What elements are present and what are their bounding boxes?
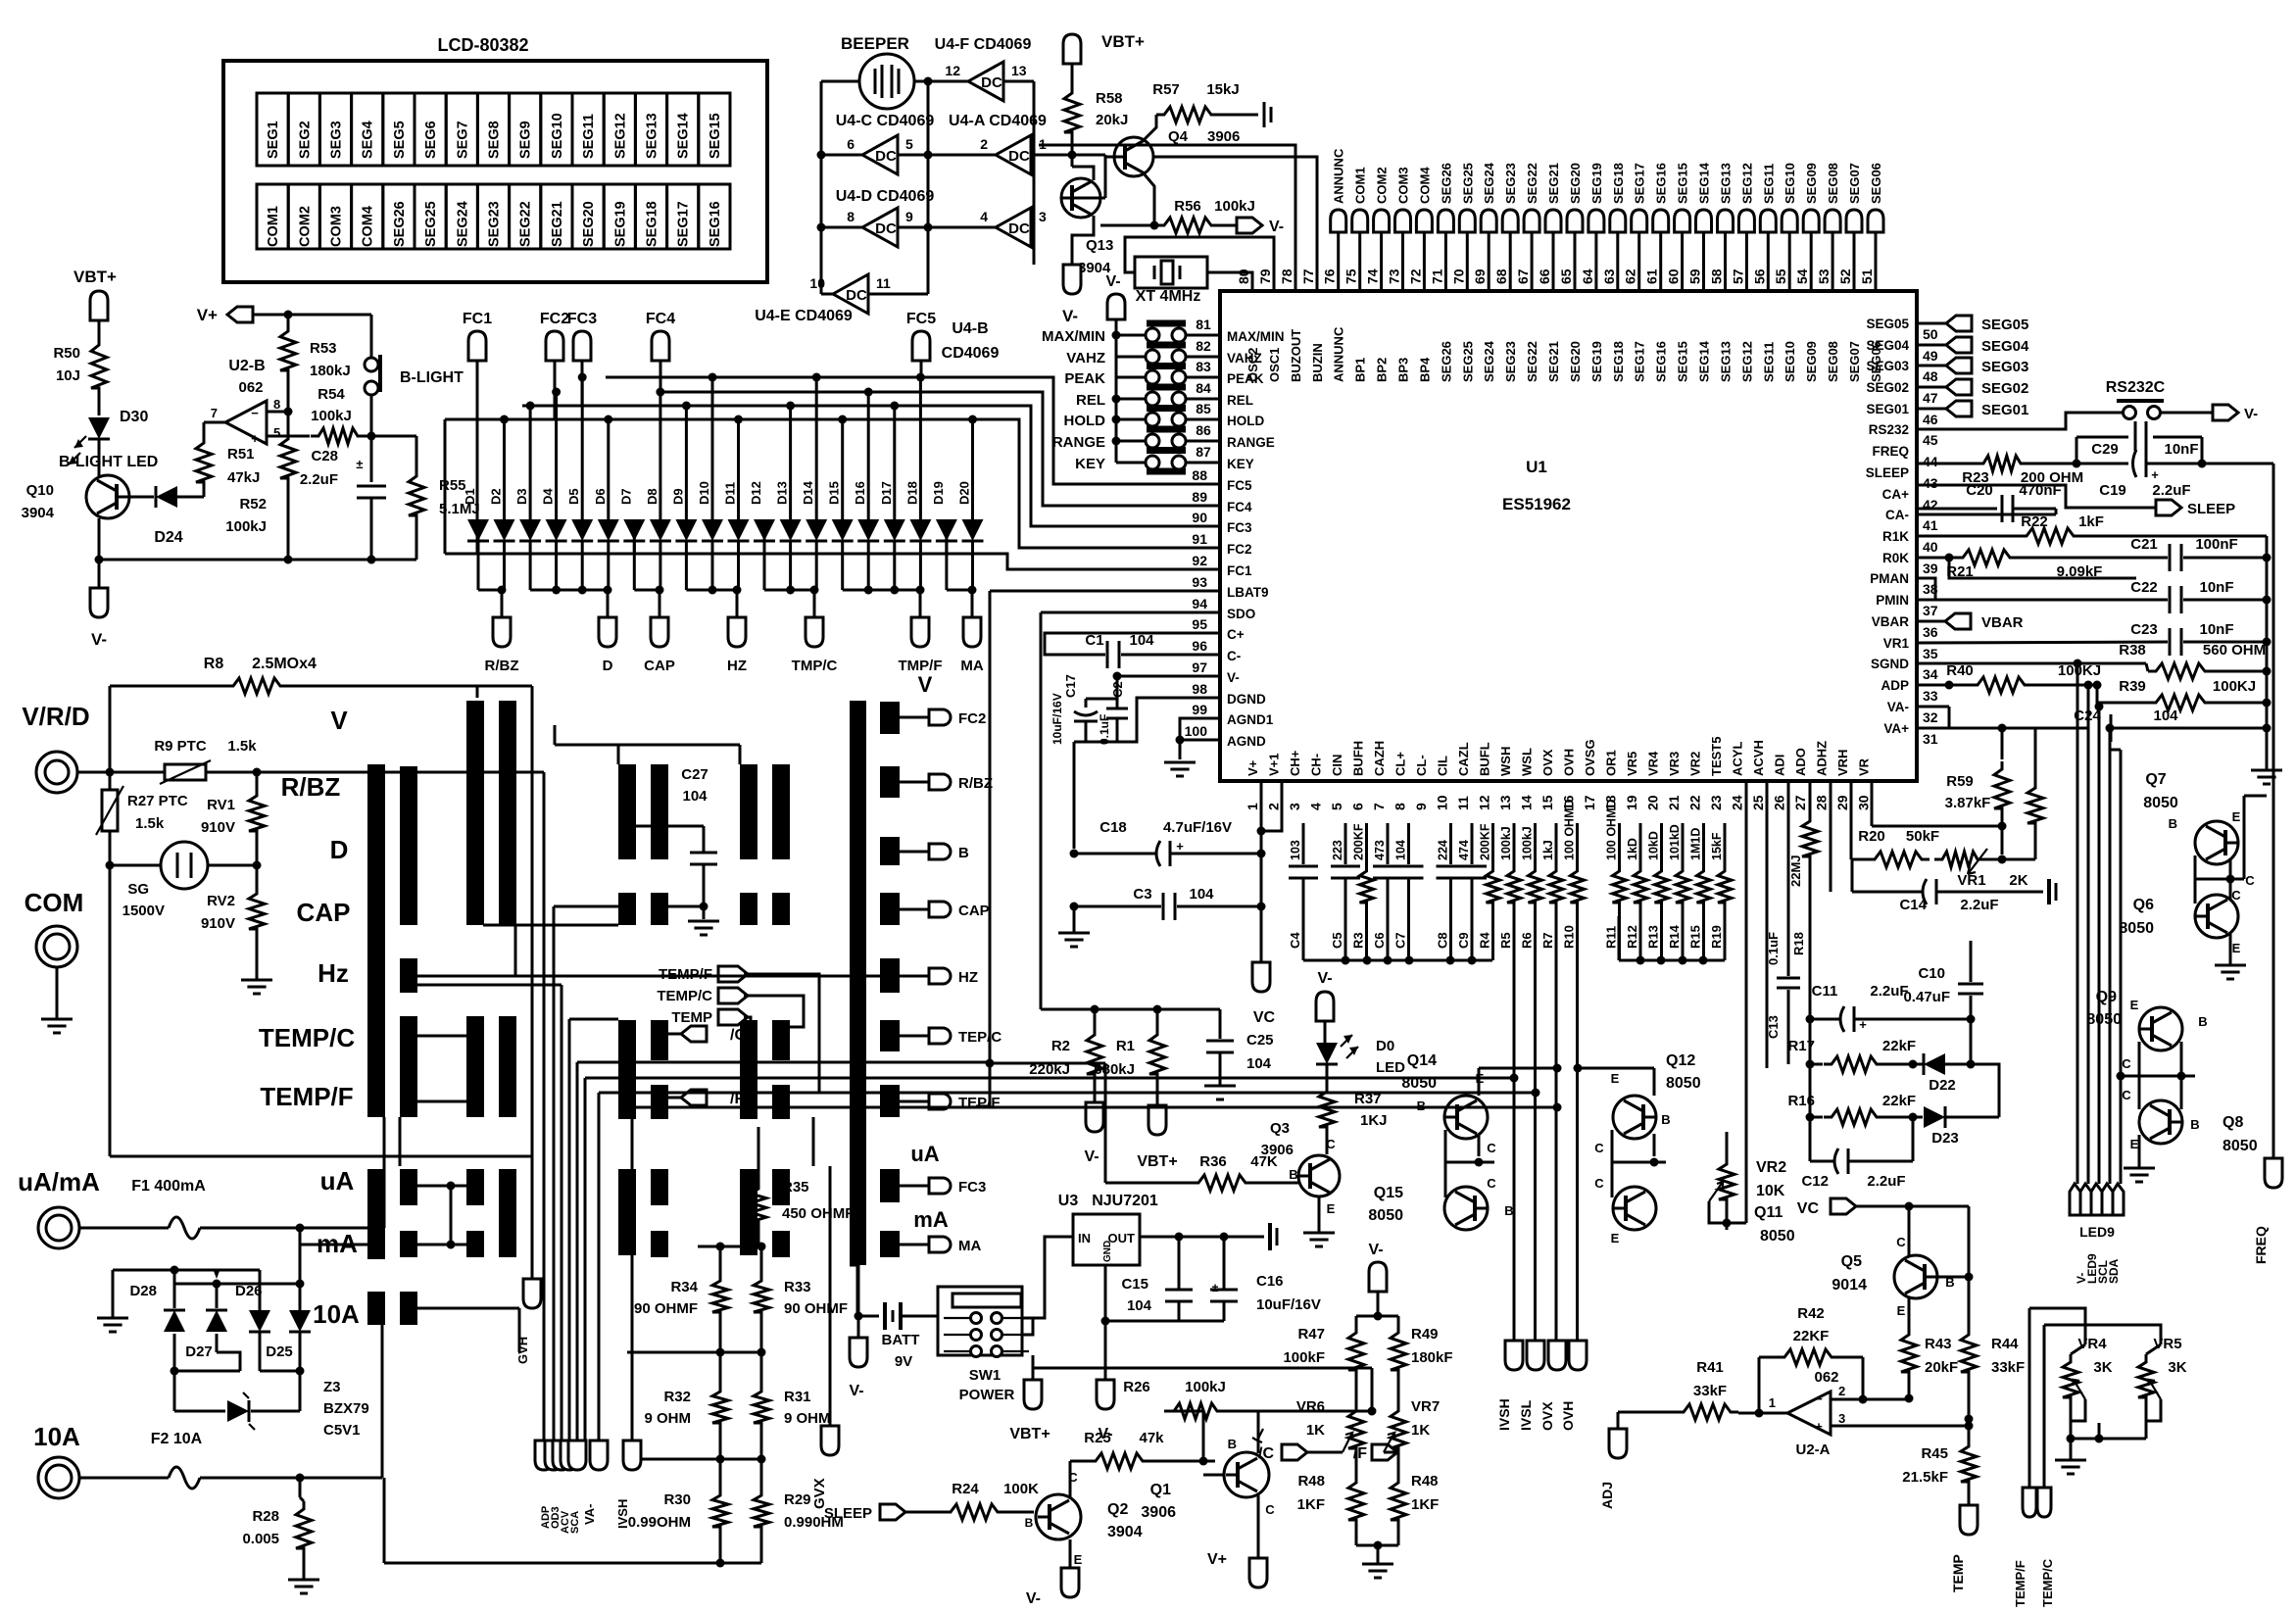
svg-text:B: B bbox=[2190, 1117, 2199, 1132]
svg-text:180kJ: 180kJ bbox=[310, 363, 351, 379]
svg-text:CL-: CL- bbox=[1414, 755, 1429, 776]
pin VA- bottom bbox=[590, 1441, 608, 1470]
svg-text:SG: SG bbox=[127, 881, 149, 898]
svg-text:C27: C27 bbox=[681, 766, 708, 783]
switch contact bar x631 y1193 bbox=[618, 1169, 636, 1255]
svg-text:ACYL: ACYL bbox=[1731, 742, 1745, 776]
svg-text:R22: R22 bbox=[2021, 513, 2048, 530]
svg-text:V-: V- bbox=[1368, 1242, 1383, 1258]
wire divider bottom join bbox=[1356, 1544, 1398, 1547]
ground under C18/C3 bbox=[1073, 906, 1076, 933]
svg-text:SEG17: SEG17 bbox=[1633, 163, 1647, 204]
wire V+ rail bbox=[253, 314, 371, 317]
wire BUZIN from Q4 bbox=[1153, 157, 1317, 291]
svg-text:SEG12: SEG12 bbox=[1739, 341, 1754, 382]
svg-text:C: C bbox=[2122, 1056, 2131, 1071]
svg-text:1.5k: 1.5k bbox=[227, 738, 257, 755]
pin SEG04 flag bbox=[1917, 344, 1946, 347]
svg-text:C6: C6 bbox=[1372, 932, 1387, 949]
pin SEG05 flag bbox=[1917, 322, 1946, 325]
svg-text:ADI: ADI bbox=[1773, 755, 1787, 776]
svg-text:R17: R17 bbox=[1787, 1038, 1815, 1054]
svg-text:10uF/16V: 10uF/16V bbox=[1256, 1296, 1321, 1313]
svg-text:F1 400mA: F1 400mA bbox=[131, 1178, 206, 1195]
svg-text:82: 82 bbox=[1196, 338, 1211, 354]
svg-text:SEG13: SEG13 bbox=[1719, 163, 1734, 204]
connector stub SEG24 bbox=[1481, 210, 1496, 232]
LCD pin cell SEG22 bbox=[510, 184, 541, 249]
wire C+ C- join bbox=[1044, 633, 1047, 655]
svg-text:V-: V- bbox=[849, 1383, 863, 1399]
resistor R58 20kJ bbox=[1064, 85, 1080, 140]
svg-text:U3: U3 bbox=[1058, 1193, 1079, 1209]
resistor R34 90 OHMF bbox=[719, 1246, 722, 1274]
switch contact bar x664 y780 bbox=[651, 764, 668, 859]
resistor R30 0.99OHM bbox=[712, 1488, 728, 1535]
transistor Q1 3906 bbox=[1224, 1452, 1269, 1497]
svg-text:R38: R38 bbox=[2119, 642, 2146, 659]
svg-text:SEG26: SEG26 bbox=[1439, 341, 1453, 382]
svg-text:R3: R3 bbox=[1351, 932, 1366, 949]
transistor Q7 8050 bbox=[2195, 821, 2238, 864]
svg-text:VR7: VR7 bbox=[1411, 1398, 1440, 1415]
svg-text:ES51962: ES51962 bbox=[1502, 495, 1571, 513]
svg-text:49: 49 bbox=[1923, 348, 1938, 364]
svg-text:20: 20 bbox=[1645, 795, 1661, 810]
svg-text:D8: D8 bbox=[645, 488, 659, 505]
svg-text:100kJ: 100kJ bbox=[225, 518, 267, 535]
transistor Q9 8050 bbox=[2139, 1007, 2182, 1050]
switch contact bar x664 y1041 bbox=[651, 1020, 668, 1060]
svg-text:100: 100 bbox=[1185, 723, 1208, 739]
connector stub SEG11 bbox=[1760, 210, 1776, 232]
switch output contact HZ bbox=[880, 958, 900, 993]
pin VBT+ under R1 bbox=[1148, 1105, 1166, 1135]
svg-text:C19: C19 bbox=[2099, 482, 2126, 499]
svg-text:D5: D5 bbox=[566, 488, 581, 505]
svg-text:FC5: FC5 bbox=[1227, 478, 1252, 493]
wire Q5 emitter to R43 bbox=[1908, 1298, 1911, 1328]
svg-text:57: 57 bbox=[1730, 269, 1745, 284]
svg-text:SEG21: SEG21 bbox=[1546, 341, 1561, 382]
svg-text:Q8: Q8 bbox=[2223, 1114, 2243, 1131]
svg-text:V-: V- bbox=[1317, 970, 1332, 987]
resistor R40 100KJ bbox=[1917, 684, 1970, 687]
diode D2 bbox=[503, 419, 506, 520]
svg-text:SEG03: SEG03 bbox=[1866, 359, 1909, 373]
svg-text:560 OHM: 560 OHM bbox=[2203, 642, 2266, 659]
surge arrester SG 1500V bbox=[110, 864, 161, 867]
svg-text:26: 26 bbox=[1772, 795, 1787, 810]
svg-text:63: 63 bbox=[1601, 269, 1617, 284]
svg-text:R47: R47 bbox=[1297, 1326, 1325, 1343]
connector stub SEG23 bbox=[1502, 210, 1518, 232]
LCD pin cell SEG19 bbox=[604, 184, 635, 249]
svg-text:TMP/F: TMP/F bbox=[899, 658, 943, 674]
svg-text:104: 104 bbox=[1127, 1297, 1152, 1314]
resistor VR1 body vertical bbox=[2027, 780, 2043, 831]
svg-text:1kF: 1kF bbox=[2078, 513, 2104, 530]
svg-text:REL: REL bbox=[1227, 393, 1253, 408]
svg-text:D28: D28 bbox=[129, 1283, 157, 1299]
svg-text:8: 8 bbox=[1392, 803, 1408, 810]
svg-text:80: 80 bbox=[1236, 269, 1251, 284]
switch output contact B bbox=[880, 837, 900, 865]
button caps bars bbox=[1147, 320, 1186, 327]
svg-text:474: 474 bbox=[1457, 840, 1471, 860]
svg-text:C: C bbox=[1594, 1141, 1604, 1155]
wire Q4 collector to R57 bbox=[1144, 115, 1156, 140]
diode D11 bbox=[737, 419, 740, 520]
diode group rail to CAP bbox=[634, 589, 660, 592]
switch output contact FC2 bbox=[880, 702, 900, 734]
crystal XT 4MHz bbox=[1135, 257, 1207, 288]
svg-text:58: 58 bbox=[1709, 269, 1725, 284]
wire R51 to op-amp bbox=[203, 422, 206, 435]
svg-text:52: 52 bbox=[1837, 269, 1853, 284]
svg-text:D1: D1 bbox=[463, 488, 477, 505]
svg-text:D17: D17 bbox=[879, 481, 894, 505]
wire OSC2 to crystal bbox=[1207, 272, 1252, 291]
resistor R6 100kJ bbox=[1534, 823, 1537, 864]
svg-text:34: 34 bbox=[1923, 666, 1938, 682]
ground COM bbox=[56, 967, 59, 1019]
connector stub COM3 bbox=[1395, 210, 1411, 232]
connector stub SEG06 bbox=[1868, 210, 1883, 232]
svg-text:COM3: COM3 bbox=[329, 206, 345, 247]
svg-text:SEG20: SEG20 bbox=[1568, 341, 1583, 382]
svg-text:PMIN: PMIN bbox=[1876, 593, 1909, 608]
bus wire FC5 net bbox=[920, 361, 923, 377]
svg-text:VA-: VA- bbox=[582, 1504, 597, 1525]
svg-text:/C: /C bbox=[1258, 1445, 1274, 1462]
wire Q4 emitter to R56 row bbox=[1144, 173, 1154, 225]
svg-text:B-LIGHT LED: B-LIGHT LED bbox=[59, 454, 158, 470]
connector stub SEG09 bbox=[1803, 210, 1819, 232]
svg-text:MA: MA bbox=[958, 1238, 981, 1254]
diode group rail to D bbox=[530, 589, 609, 592]
svg-text:FC5: FC5 bbox=[906, 311, 936, 327]
svg-text:D20: D20 bbox=[957, 481, 972, 505]
switch contact bar x664 y1193 bbox=[651, 1169, 668, 1205]
svg-text:83: 83 bbox=[1196, 359, 1211, 374]
wire CAP rows bbox=[483, 924, 618, 927]
svg-text:9 OHM: 9 OHM bbox=[784, 1410, 831, 1427]
svg-text:69: 69 bbox=[1472, 269, 1488, 284]
svg-text:C: C bbox=[1487, 1176, 1496, 1191]
battery BATT 9V bbox=[850, 1264, 858, 1267]
svg-text:R40: R40 bbox=[1946, 662, 1974, 679]
svg-text:45: 45 bbox=[1923, 432, 1938, 448]
svg-text:C29: C29 bbox=[2091, 441, 2119, 458]
LCD pin cell SEG16 bbox=[699, 184, 730, 249]
svg-text:R14: R14 bbox=[1667, 924, 1682, 949]
svg-text:R32: R32 bbox=[663, 1389, 691, 1405]
svg-text:D7: D7 bbox=[618, 488, 633, 505]
pin IVSH bottom bbox=[623, 1441, 641, 1470]
svg-text:59: 59 bbox=[1687, 269, 1703, 284]
transistor Q10 3904 bbox=[86, 475, 129, 518]
svg-text:10nF: 10nF bbox=[2164, 441, 2198, 458]
svg-text:SEG06: SEG06 bbox=[1869, 163, 1883, 204]
wire VC top rail bbox=[1041, 1008, 1220, 1011]
pin SEG01 flag bbox=[1917, 408, 1946, 411]
potentiometer VR2 10K bbox=[1726, 1132, 1729, 1156]
svg-text:41: 41 bbox=[1923, 517, 1938, 533]
svg-text:54: 54 bbox=[1794, 269, 1810, 284]
wire long bar to battery bbox=[856, 1265, 859, 1316]
svg-text:SEG04: SEG04 bbox=[1981, 338, 2029, 355]
transistor Q2 3904 bbox=[1036, 1494, 1081, 1539]
svg-text:95: 95 bbox=[1192, 616, 1207, 632]
svg-text:LBAT9: LBAT9 bbox=[1227, 585, 1269, 600]
svg-text:SEG12: SEG12 bbox=[612, 113, 628, 159]
svg-text:R12: R12 bbox=[1625, 925, 1639, 949]
beeper BZ1 bbox=[821, 80, 859, 83]
resistor R3 200KF bbox=[1365, 823, 1368, 864]
svg-text:BEEPER: BEEPER bbox=[841, 34, 909, 53]
svg-text:22: 22 bbox=[1687, 795, 1703, 810]
svg-text:DC: DC bbox=[875, 148, 897, 165]
svg-text:R13: R13 bbox=[1646, 925, 1661, 949]
diode D23 bbox=[1913, 1116, 1923, 1119]
svg-text:33kF: 33kF bbox=[1991, 1359, 2025, 1376]
svg-text:D24: D24 bbox=[154, 529, 182, 546]
svg-text:VC: VC bbox=[1253, 1009, 1276, 1026]
svg-text:19: 19 bbox=[1624, 795, 1639, 810]
svg-text:MAX/MIN: MAX/MIN bbox=[1227, 329, 1285, 344]
svg-text:D27: D27 bbox=[185, 1343, 213, 1360]
svg-text:11: 11 bbox=[876, 275, 891, 291]
LCD pin cell SEG3 bbox=[319, 93, 351, 166]
transistor Q11 8050 bbox=[1613, 1187, 1656, 1230]
LCD pin cell SEG10 bbox=[541, 93, 572, 166]
svg-text:C4: C4 bbox=[1288, 932, 1302, 949]
svg-text:65: 65 bbox=[1558, 269, 1574, 284]
diode D12 bbox=[763, 520, 766, 554]
wire R47 R49 top join bbox=[1356, 1315, 1398, 1318]
op-amp U2-A 062 bbox=[1787, 1392, 1831, 1435]
svg-text:21.5kF: 21.5kF bbox=[1902, 1469, 1948, 1486]
switch SW1 POWER bbox=[938, 1287, 1022, 1355]
svg-text:R56: R56 bbox=[1174, 198, 1201, 215]
svg-text:U4-C CD4069: U4-C CD4069 bbox=[836, 113, 935, 129]
wire left rail of U4 block bbox=[820, 81, 823, 294]
svg-text:SEG09: SEG09 bbox=[1804, 341, 1819, 382]
svg-text:TEMP/C: TEMP/C bbox=[259, 1023, 355, 1052]
svg-text:B-LIGHT: B-LIGHT bbox=[400, 369, 464, 386]
wire R5-R10 columns down bbox=[1513, 910, 1516, 1341]
svg-text:V: V bbox=[330, 706, 348, 735]
svg-text:SEG11: SEG11 bbox=[1761, 164, 1776, 204]
svg-text:22kF: 22kF bbox=[1882, 1093, 1916, 1109]
svg-text:SDO: SDO bbox=[1227, 607, 1255, 621]
resistor R45 21.5kF bbox=[1968, 1419, 1971, 1439]
svg-text:200KF: 200KF bbox=[1479, 823, 1492, 860]
connector stub SEG13 bbox=[1718, 210, 1734, 232]
svg-text:LED9: LED9 bbox=[2079, 1224, 2115, 1240]
svg-text:HOLD: HOLD bbox=[1064, 413, 1106, 429]
switch contact bar x664 y911 bbox=[651, 893, 668, 925]
switch contact bar x476 y1037 bbox=[466, 1016, 484, 1117]
svg-text:39: 39 bbox=[1923, 561, 1938, 576]
capacitor C7 104 bbox=[1407, 823, 1410, 864]
svg-text:V-: V- bbox=[2244, 406, 2258, 422]
LCD pin cell SEG23 bbox=[477, 184, 509, 249]
resistor R10 100 OHMD bbox=[1576, 823, 1579, 864]
svg-text:Q1: Q1 bbox=[1150, 1482, 1171, 1498]
svg-text:48: 48 bbox=[1923, 368, 1938, 384]
svg-text:96: 96 bbox=[1192, 638, 1207, 654]
svg-text:VA+: VA+ bbox=[1883, 721, 1909, 736]
svg-text:OVSG: OVSG bbox=[1583, 739, 1597, 776]
svg-text:SEG23: SEG23 bbox=[1503, 341, 1518, 382]
wire op-amp output to R51 bbox=[204, 421, 225, 424]
svg-text:81: 81 bbox=[1196, 317, 1211, 332]
svg-text:OSC1: OSC1 bbox=[1267, 348, 1282, 382]
wire Q14 collector rail bbox=[1478, 1068, 1481, 1096]
svg-text:B: B bbox=[1661, 1112, 1670, 1127]
wire right of bars verticals bbox=[812, 1117, 815, 1166]
LCD pin cell SEG24 bbox=[446, 184, 477, 249]
svg-text:B: B bbox=[1504, 1203, 1513, 1218]
svg-text:10: 10 bbox=[1435, 795, 1450, 810]
wire F2 row to switch bbox=[381, 1325, 384, 1478]
svg-text:R15: R15 bbox=[1688, 925, 1703, 949]
svg-text:C: C bbox=[1265, 1502, 1275, 1517]
svg-text:104: 104 bbox=[1189, 886, 1214, 903]
svg-text:D12: D12 bbox=[749, 481, 763, 505]
pin D output bbox=[599, 617, 616, 647]
diode D28 bbox=[173, 1270, 176, 1308]
svg-text:36: 36 bbox=[1923, 624, 1938, 640]
svg-text:TEMP/C: TEMP/C bbox=[657, 988, 712, 1004]
svg-text:CA-: CA- bbox=[1885, 508, 1909, 522]
svg-text:C11: C11 bbox=[1812, 983, 1838, 1000]
wire VR4 VR5 bottom join bbox=[2071, 1438, 2146, 1441]
svg-text:R43: R43 bbox=[1925, 1336, 1952, 1352]
svg-text:8050: 8050 bbox=[2143, 795, 2178, 811]
cluster pins bottom bbox=[535, 1441, 553, 1470]
LCD pin cell SEG18 bbox=[635, 184, 666, 249]
svg-text:C5V1: C5V1 bbox=[323, 1422, 361, 1439]
svg-text:COM1: COM1 bbox=[266, 206, 281, 247]
svg-text:5: 5 bbox=[1329, 803, 1344, 810]
LCD pin cell COM3 bbox=[319, 184, 351, 249]
svg-text:V+: V+ bbox=[197, 306, 218, 324]
diode D18 bbox=[919, 377, 922, 520]
svg-text:SEG23: SEG23 bbox=[1503, 163, 1518, 204]
svg-text:42: 42 bbox=[1923, 497, 1938, 513]
wire pin1 V+ column to VC bbox=[1260, 781, 1263, 962]
svg-text:43: 43 bbox=[1923, 475, 1938, 491]
svg-text:COM4: COM4 bbox=[1417, 167, 1432, 204]
wire op-amp plus input to R54 bbox=[267, 435, 310, 438]
diode D8 bbox=[659, 392, 661, 520]
resistor R53 180kJ bbox=[287, 315, 290, 323]
svg-text:3904: 3904 bbox=[1107, 1524, 1143, 1540]
resistor R5 100kJ bbox=[1513, 823, 1516, 864]
svg-text:ANNUNC: ANNUNC bbox=[1332, 326, 1346, 382]
svg-text:TEMP/C: TEMP/C bbox=[2040, 1558, 2055, 1607]
svg-text:SEG17: SEG17 bbox=[676, 201, 692, 247]
svg-text:Q3: Q3 bbox=[1270, 1120, 1290, 1137]
resistor R1 680kJ bbox=[1156, 1009, 1159, 1027]
svg-text:3: 3 bbox=[1039, 209, 1047, 224]
svg-text:2.2uF: 2.2uF bbox=[2152, 482, 2190, 499]
svg-text:R54: R54 bbox=[318, 386, 345, 403]
svg-text:4.7uF/16V: 4.7uF/16V bbox=[1163, 819, 1232, 836]
svg-text:SLEEP: SLEEP bbox=[824, 1505, 872, 1522]
capacitor C15 104 bbox=[1178, 1237, 1181, 1290]
svg-text:2: 2 bbox=[1266, 803, 1282, 810]
svg-text:3904: 3904 bbox=[22, 505, 55, 521]
cap to ground right of C14 bbox=[2047, 879, 2051, 904]
ground C27 bbox=[688, 920, 719, 923]
svg-text:53: 53 bbox=[1816, 269, 1832, 284]
svg-text:FC2: FC2 bbox=[1227, 542, 1252, 557]
connector stub SEG10 bbox=[1782, 210, 1797, 232]
svg-text:V-: V- bbox=[1269, 219, 1284, 235]
svg-text:FC3: FC3 bbox=[1227, 520, 1252, 535]
svg-text:BP4: BP4 bbox=[1417, 357, 1432, 382]
wire backlight bottom rail bbox=[99, 559, 416, 562]
pin SEG03 flag bbox=[1917, 365, 1946, 367]
svg-text:CIL: CIL bbox=[1436, 756, 1450, 776]
svg-text:R48: R48 bbox=[1411, 1473, 1439, 1490]
svg-text:73: 73 bbox=[1387, 269, 1402, 284]
svg-text:67: 67 bbox=[1515, 269, 1531, 284]
svg-text:8050: 8050 bbox=[2223, 1138, 2258, 1154]
wire PMAN jog bbox=[1917, 578, 1935, 600]
svg-text:Q13: Q13 bbox=[1086, 237, 1113, 254]
inverter U4-B CD4069 bbox=[928, 226, 996, 229]
svg-text:64: 64 bbox=[1580, 269, 1595, 284]
wire FREQ right rail bbox=[2272, 464, 2275, 1158]
svg-text:97: 97 bbox=[1192, 659, 1207, 675]
svg-text:15kF: 15kF bbox=[1710, 832, 1724, 860]
svg-text:100 OHMD: 100 OHMD bbox=[1563, 799, 1577, 860]
svg-text:SEG02: SEG02 bbox=[1866, 380, 1909, 395]
svg-text:CIN: CIN bbox=[1330, 755, 1344, 776]
svg-text:SEG7: SEG7 bbox=[455, 121, 470, 159]
wire Q12 Q11 join bbox=[1611, 1130, 1614, 1197]
switch contact bar x788 y1193 bbox=[772, 1169, 790, 1205]
svg-text:1K: 1K bbox=[1306, 1422, 1325, 1439]
svg-text:70: 70 bbox=[1450, 269, 1466, 284]
svg-text:8050: 8050 bbox=[2086, 1011, 2122, 1028]
svg-text:/C: /C bbox=[730, 1027, 746, 1044]
resistor R7 1kJ bbox=[1555, 823, 1558, 864]
capacitor C9 474 bbox=[1471, 823, 1474, 864]
switch contact bar x408 y1037 bbox=[400, 1016, 417, 1117]
resistor R19 15kF bbox=[1724, 823, 1727, 864]
wire LBAT9 route bbox=[990, 590, 1220, 593]
svg-text:R58: R58 bbox=[1096, 90, 1123, 107]
wire U4 output row to Q13 base and BUZIN bbox=[1104, 155, 1107, 198]
LCD pin cell SEG26 bbox=[383, 184, 415, 249]
wire Q2 collector to R25 bbox=[1069, 1461, 1072, 1497]
switch output contact MA bbox=[880, 1231, 900, 1257]
svg-text:R39: R39 bbox=[2119, 678, 2146, 695]
svg-text:U4-E CD4069: U4-E CD4069 bbox=[755, 308, 853, 324]
svg-text:450 OHMF: 450 OHMF bbox=[782, 1205, 854, 1222]
svg-text:4: 4 bbox=[1308, 803, 1324, 810]
switch contact bar x664 y1107 bbox=[651, 1085, 668, 1119]
svg-text:CAP: CAP bbox=[297, 898, 351, 927]
svg-text:1KF: 1KF bbox=[1297, 1496, 1325, 1513]
svg-text:4: 4 bbox=[980, 209, 988, 224]
